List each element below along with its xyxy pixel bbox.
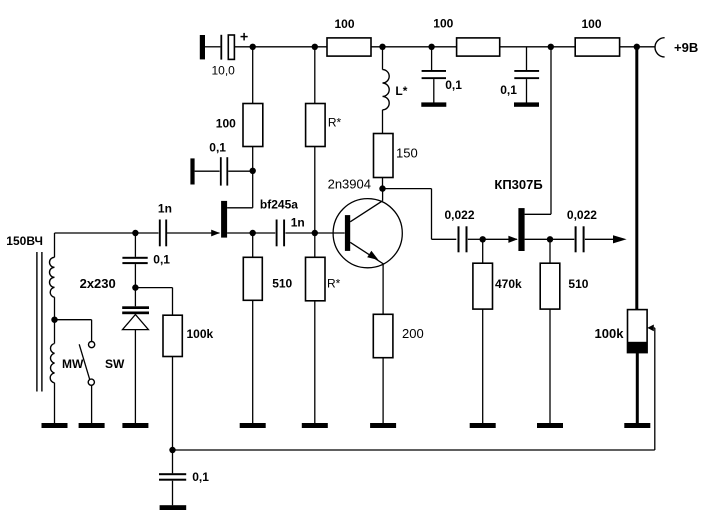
- node coil tap: [51, 317, 57, 323]
- wire drop from rail to R4: [252, 47, 254, 104]
- svg-text:1n: 1n: [291, 216, 305, 230]
- svg-text:R*: R*: [328, 116, 342, 130]
- wire source row to C4: [253, 232, 276, 234]
- resistor R3 100 horizontal: [575, 38, 619, 56]
- svg-text:R*: R*: [327, 277, 341, 291]
- node rail junction 6: [634, 44, 640, 50]
- connector +9V: [655, 38, 665, 57]
- capacitor C9 0,1 series: [122, 257, 147, 288]
- svg-text:0,1: 0,1: [192, 470, 209, 484]
- transistor Q2 2n3904 NPN: [333, 189, 402, 315]
- transistor Q1 bf245a JFET: [167, 201, 253, 238]
- svg-text:100k: 100k: [595, 326, 625, 341]
- capacitor C8 0,022 output: [576, 226, 614, 252]
- resistor R4 100 vertical: [243, 104, 263, 147]
- svg-text:0,1: 0,1: [153, 253, 170, 267]
- node rail junction 4: [428, 44, 434, 50]
- capacitor C2 0,1 with terminal bar: [190, 157, 252, 185]
- output arrow: [613, 235, 627, 243]
- svg-text:10,0: 10,0: [212, 64, 236, 78]
- wire L* to R8: [382, 110, 384, 134]
- svg-text:0,1: 0,1: [209, 141, 226, 155]
- resistor R13 100k: [163, 315, 182, 450]
- svg-text:150ВЧ: 150ВЧ: [6, 234, 43, 248]
- svg-text:2n3904: 2n3904: [328, 176, 371, 191]
- wire R4 bottom to bf245a drain: [252, 147, 254, 208]
- resistor R9 200 emitter: [373, 314, 393, 423]
- capacitor C4 1n interstage: [277, 220, 345, 247]
- svg-text:100: 100: [433, 17, 453, 31]
- wire rail to R6: [314, 47, 316, 104]
- node source bf245a: [250, 230, 256, 236]
- wire varicap node to R13: [135, 288, 172, 316]
- svg-text:1n: 1n: [158, 202, 172, 216]
- wire 510 R5 drop: [252, 233, 254, 257]
- node bf245a drain: [250, 168, 256, 174]
- wire top rail segments: [205, 46, 655, 48]
- ground under R12: [624, 423, 650, 428]
- svg-text:510: 510: [272, 276, 292, 290]
- resistor R7 R* lower: [306, 233, 326, 423]
- node rail junction 2: [312, 44, 318, 50]
- svg-text:100: 100: [216, 117, 236, 131]
- capacitor C3 1n input coupling: [160, 220, 166, 247]
- node collector: [379, 185, 385, 191]
- resistor R2 100 horizontal: [457, 38, 500, 56]
- svg-text:100k: 100k: [187, 327, 214, 341]
- svg-text:100: 100: [335, 17, 355, 31]
- ground under R9: [370, 423, 396, 428]
- resistor R10 470k: [473, 239, 493, 423]
- svg-text:470k: 470k: [495, 277, 522, 291]
- ground under R7: [302, 423, 328, 428]
- node rail junction 1: [250, 44, 256, 50]
- node rail junction 5: [548, 44, 554, 50]
- wire bottom tuning line: [173, 449, 655, 451]
- ground under C6: [514, 102, 539, 106]
- node base: [312, 230, 318, 236]
- svg-text:510: 510: [568, 277, 588, 291]
- node source KP307B: [547, 236, 553, 242]
- svg-text:0,1: 0,1: [445, 78, 462, 92]
- capacitor C6 0,1 decoupling second: [514, 47, 539, 103]
- svg-text:MW: MW: [62, 357, 84, 371]
- node bottom tuning: [169, 447, 175, 453]
- ground under R10: [470, 423, 496, 428]
- wire tap to switch: [55, 320, 92, 342]
- ground under transformer: [42, 423, 68, 428]
- ground under varicap: [122, 423, 148, 428]
- wire L* branch from rail: [382, 47, 384, 70]
- switch SW/MW: [79, 342, 95, 424]
- wire winding middle with tap: [54, 297, 56, 343]
- transistor Q3 KP307B JFET: [483, 47, 575, 251]
- varicap D1 2x230: [122, 288, 149, 423]
- inductor L*: [383, 70, 390, 110]
- svg-text:200: 200: [402, 326, 424, 341]
- potentiometer R12 100k: [628, 310, 655, 450]
- svg-text:0,1: 0,1: [500, 83, 517, 97]
- svg-text:100: 100: [582, 17, 602, 31]
- wire input row left: [55, 232, 159, 234]
- node gate KP307B: [480, 236, 486, 242]
- svg-text:2x230: 2x230: [80, 276, 116, 291]
- ground under switch: [79, 423, 105, 428]
- capacitor C5 0,1 decoupling first: [422, 47, 446, 103]
- transformer 150VCh core: [37, 252, 42, 392]
- svg-text:0,022: 0,022: [445, 208, 475, 222]
- node input: [132, 230, 138, 236]
- svg-text:КП307Б: КП307Б: [494, 177, 542, 192]
- ground under R11: [537, 423, 563, 428]
- inductor winding lower section: [50, 344, 54, 424]
- resistor R1 100 horizontal: [327, 38, 371, 56]
- ground under C10: [160, 505, 187, 510]
- resistor R5 510: [243, 257, 262, 423]
- svg-text:SW: SW: [105, 357, 125, 371]
- node varicap: [132, 284, 138, 290]
- svg-text:0,022: 0,022: [567, 208, 597, 222]
- svg-text:L*: L*: [395, 84, 407, 98]
- wire thick feed to potentiometer: [635, 47, 638, 309]
- resistor R6 R* upper: [306, 104, 326, 234]
- svg-text:+9В: +9В: [674, 40, 698, 55]
- capacitor C1 10,0 electrolytic with terminal bar: [200, 33, 248, 60]
- node rail junction 3: [379, 44, 385, 50]
- capacitor C10 0,1 bottom: [159, 450, 186, 505]
- wire collector node to C7: [383, 189, 457, 240]
- capacitor C7 0,022 coupling: [459, 226, 483, 252]
- ground under C5: [421, 102, 446, 106]
- ground under R5: [240, 423, 266, 428]
- resistor R8 150: [374, 134, 394, 189]
- inductor winding upper section: [50, 233, 55, 297]
- wire input node to C9: [134, 233, 136, 257]
- svg-text:bf245a: bf245a: [260, 197, 298, 211]
- resistor R11 510 second: [540, 239, 560, 423]
- svg-text:150: 150: [396, 146, 418, 161]
